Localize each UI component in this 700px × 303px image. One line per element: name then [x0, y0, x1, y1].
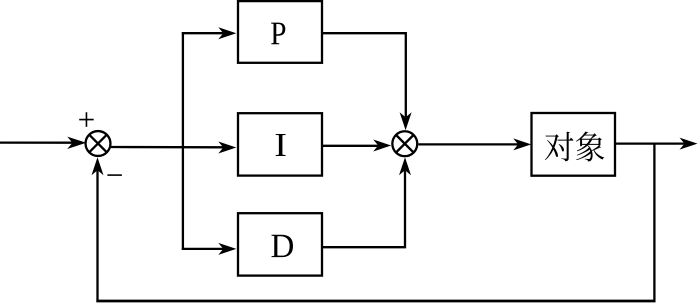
- wire: S1 output to branch node and I block input: [111, 146, 224, 149]
- label duixiang (plant) character DUI: [545, 132, 604, 162]
- label duixiang (plant) character XIANG: [576, 132, 604, 162]
- arrowhead up into summing junction S1 (feedback): [92, 157, 104, 175]
- arrowhead down into summing junction S2: [400, 112, 412, 130]
- plant block box (duixiang): [532, 113, 616, 176]
- arrowhead output: [680, 138, 698, 150]
- wire: plant output line: [615, 142, 685, 144]
- label D: [271, 235, 293, 257]
- branch node vertical wire (splits to P and D): [182, 32, 184, 250]
- arrowhead into plant block: [513, 138, 531, 150]
- wire: S2 output to plant block: [418, 143, 519, 145]
- D block box: [238, 213, 322, 275]
- wire: D block output to corner below summing junction S2: [322, 171, 405, 248]
- wire: P block output to corner above summing junction S2: [322, 33, 406, 117]
- arrowhead into summing junction S1: [67, 137, 86, 149]
- summing junction S2 cross X: [396, 135, 413, 152]
- summing junction S2 circle: [392, 131, 417, 156]
- label P: [271, 23, 285, 45]
- arrowhead into D block: [218, 243, 236, 255]
- summing junction S1 circle: [86, 131, 111, 156]
- arrowhead into summing junction S2 from I: [373, 140, 391, 152]
- feedback wire bottom horizontal: [96, 300, 655, 303]
- arrowhead into I block: [218, 142, 236, 154]
- label I: [276, 134, 286, 156]
- wire: input signal into summing junction S1: [0, 141, 74, 143]
- minus sign label at S1: [107, 174, 122, 176]
- wire: branch to P block input: [182, 32, 224, 34]
- plus sign label at S1: [79, 112, 94, 127]
- feedback wire left vertical up to S1: [96, 170, 98, 302]
- wire: I block output to summing junction S2: [322, 145, 379, 147]
- P block box: [238, 1, 322, 63]
- feedback wire: down from output node, left along bottom, up to S1: [653, 144, 655, 302]
- summing junction S1 cross X: [89, 135, 106, 152]
- wire: branch to D block input: [182, 248, 224, 250]
- arrowhead up into summing junction S2 from D: [399, 157, 411, 175]
- I block box: [238, 113, 322, 175]
- arrowhead into P block: [218, 27, 236, 39]
